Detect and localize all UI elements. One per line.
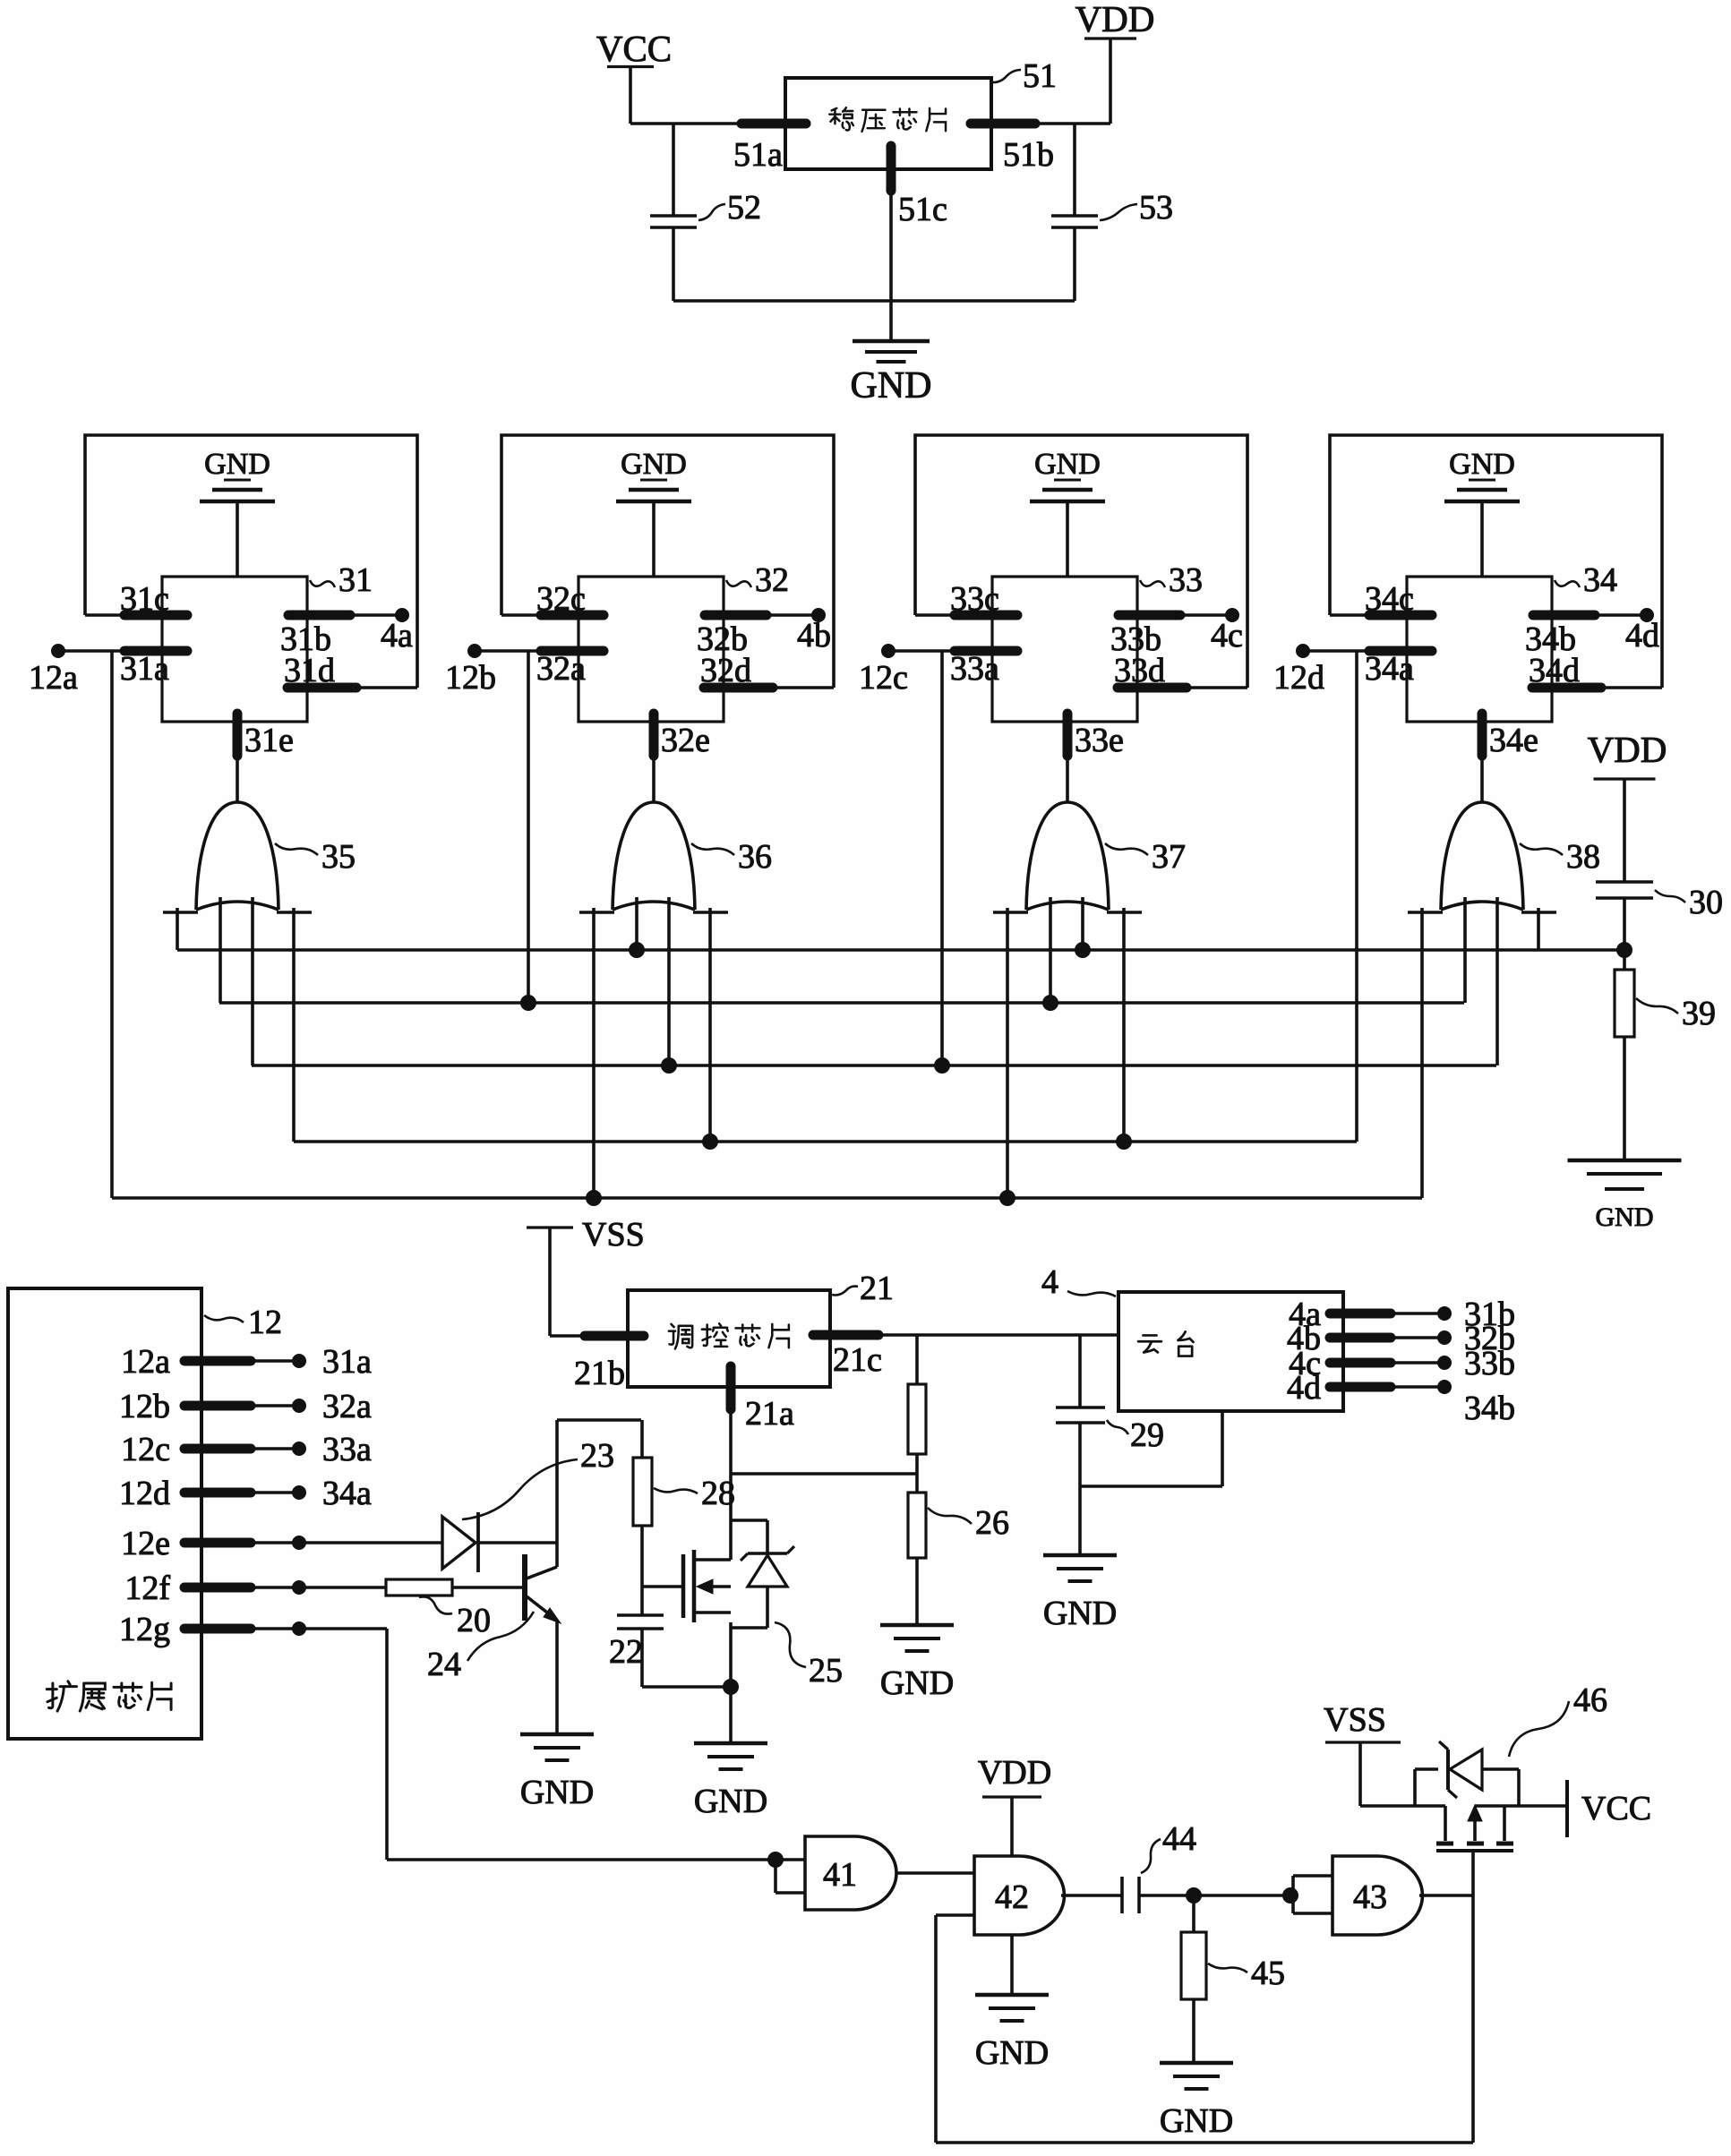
svg-text:GND: GND	[975, 2034, 1049, 2072]
pin 33e	[1066, 722, 1069, 802]
pin 12b of chip 12	[184, 1401, 251, 1411]
svg-text:33e: 33e	[1075, 722, 1124, 759]
svg-text:35: 35	[321, 838, 356, 876]
expansion chip 12 box	[8, 1288, 201, 1739]
chip 31 inner box	[162, 577, 307, 722]
svg-text:33a: 33a	[950, 650, 999, 688]
svg-text:12d: 12d	[119, 1475, 170, 1512]
node gate43 input tie	[1283, 1888, 1298, 1904]
label 23 with leader	[462, 1459, 578, 1519]
svg-text:31a: 31a	[120, 650, 169, 688]
svg-text:41: 41	[823, 1856, 857, 1894]
svg-text:21c: 21c	[833, 1341, 882, 1379]
zener diode of Q25 net	[731, 1519, 767, 1522]
wire gate42 to ground	[1010, 1935, 1014, 1995]
pin 31b with output node 4a	[288, 611, 350, 620]
label 44 with leader	[1141, 1839, 1161, 1873]
wire 12g to AND gate chain	[251, 1627, 387, 1630]
wire gate42 output to C44	[1061, 1894, 1122, 1897]
svg-text:GND: GND	[1043, 1595, 1117, 1632]
svg-text:GND: GND	[880, 1664, 954, 1702]
OR gate 36	[613, 802, 695, 910]
wire gimbal bottom pin to C29 net	[1221, 1411, 1224, 1486]
svg-text:34e: 34e	[1489, 722, 1538, 759]
svg-text:52: 52	[727, 189, 761, 227]
svg-text:GND: GND	[694, 1783, 767, 1820]
pin 4a to node 31b	[1330, 1309, 1391, 1319]
svg-text:GND: GND	[851, 365, 932, 406]
label 21 with leader	[832, 1287, 858, 1296]
svg-text:4d: 4d	[1625, 617, 1659, 654]
svg-text:4b: 4b	[797, 617, 831, 654]
svg-text:23: 23	[580, 1437, 614, 1475]
label 38 with leader	[1520, 843, 1563, 855]
pin 4c to node 33b	[1330, 1358, 1391, 1368]
wire 12a to node 31a	[251, 1359, 299, 1363]
label 51 with leader	[993, 70, 1021, 82]
resistor R27 upper of divider	[915, 1335, 919, 1384]
svg-text:VSS: VSS	[582, 1216, 645, 1253]
label 26 with leader	[928, 1508, 972, 1524]
svg-text:43: 43	[1353, 1878, 1387, 1916]
svg-text:33c: 33c	[950, 580, 999, 618]
ground GND under C29	[1043, 1553, 1117, 1558]
capacitor C29	[1078, 1335, 1082, 1407]
svg-text:GND: GND	[1160, 2102, 1233, 2140]
bus line 2	[219, 1001, 1464, 1005]
svg-text:53: 53	[1139, 189, 1173, 227]
svg-text:30: 30	[1689, 884, 1723, 921]
wire gate 36 input drop to bus 4	[708, 908, 712, 1142]
svg-text:21b: 21b	[574, 1355, 625, 1392]
svg-text:29: 29	[1130, 1416, 1164, 1454]
block 33 outer enclosure box	[915, 435, 1247, 688]
svg-text:VDD: VDD	[978, 1754, 1051, 1792]
svg-text:GND: GND	[1449, 448, 1515, 481]
svg-text:4a: 4a	[381, 617, 413, 654]
capacitor C30	[1596, 880, 1653, 884]
svg-text:GND: GND	[204, 448, 270, 481]
svg-text:32: 32	[755, 561, 789, 599]
wire gate 35 input drop to bus 1	[176, 908, 179, 950]
bus line 1	[177, 948, 1624, 952]
pin 4d to node 34b	[1330, 1382, 1391, 1392]
label 36 with leader	[691, 843, 734, 855]
chip 32 inner box	[578, 577, 724, 722]
label 45 with leader	[1208, 1963, 1247, 1972]
AND gate 42	[974, 1856, 1064, 1935]
svg-text:31: 31	[338, 561, 373, 599]
capacitor C22	[617, 1613, 664, 1617]
wire feedback riser to gate42 lower input	[934, 1915, 938, 2143]
power rail VCC of Q46	[1565, 1780, 1569, 1837]
resistor R39	[1615, 970, 1634, 1037]
node bus1-C30-R39	[1617, 943, 1632, 958]
block 32 outer enclosure box	[501, 435, 834, 688]
wire gate 37 input drop to bus 4	[1122, 908, 1126, 1142]
wire gate41 output to gate42	[896, 1871, 974, 1875]
wire source to ground	[729, 1622, 733, 1743]
mosfet Q46	[1436, 1849, 1513, 1852]
wire node up to resistor R28 top	[555, 1420, 559, 1543]
bus line 3	[252, 1064, 1496, 1067]
svg-text:33d: 33d	[1114, 652, 1165, 689]
label 34 with leader	[1555, 580, 1580, 587]
wire pin 51b to VDD	[1035, 122, 1110, 125]
label 53 with leader	[1100, 204, 1137, 220]
svg-text:32c: 32c	[536, 580, 586, 618]
label 32 with leader	[726, 580, 751, 587]
svg-text:VSS: VSS	[1324, 1701, 1386, 1739]
svg-text:VDD: VDD	[1075, 0, 1155, 39]
svg-text:12: 12	[248, 1304, 282, 1341]
wire gate 37 input drop to bus 2	[1049, 897, 1052, 1003]
wire gate 36 input drop to bus 5	[592, 908, 596, 1198]
label 28 with leader	[654, 1488, 698, 1493]
AND gate 43	[1333, 1856, 1422, 1935]
label 24 with leader	[467, 1612, 534, 1661]
label 52 with leader	[698, 204, 725, 220]
resistor R45	[1192, 1895, 1195, 1932]
svg-text:32e: 32e	[661, 722, 710, 759]
svg-text:32d: 32d	[700, 652, 751, 689]
svg-text:34a: 34a	[1365, 650, 1414, 688]
node Q25 source	[724, 1680, 739, 1695]
svg-text:12b: 12b	[119, 1388, 170, 1425]
ground GND under gate42	[975, 1993, 1049, 1998]
pin 34c	[1330, 613, 1407, 617]
wire gate 38 input drop to bus 3	[1495, 897, 1499, 1065]
wire gate43 output to mosfet Q46 gate	[1419, 1894, 1473, 1897]
svg-text:12g: 12g	[119, 1611, 170, 1648]
pin 32b with output node 4b	[705, 611, 767, 620]
node gate41 input tie	[768, 1852, 784, 1868]
wire gate 38 input drop to bus 1	[1537, 908, 1540, 950]
svg-text:33a: 33a	[322, 1431, 372, 1468]
pin 12g of chip 12	[184, 1624, 251, 1634]
svg-text:GND: GND	[621, 448, 687, 481]
ground GND under R45	[1160, 2061, 1233, 2066]
wire gate 38 input drop to bus 5	[1420, 908, 1424, 1198]
svg-text:4: 4	[1041, 1263, 1058, 1301]
svg-text:24: 24	[427, 1646, 461, 1683]
ground GND of regulator	[853, 339, 930, 344]
label 30 with leader	[1655, 890, 1685, 903]
pin 32e	[652, 722, 656, 802]
resistor R20	[386, 1579, 452, 1596]
svg-text:21a: 21a	[745, 1395, 794, 1433]
ground GND under R26	[880, 1623, 954, 1628]
wire 12b to node 32a	[251, 1404, 299, 1407]
pin 34e	[1480, 722, 1484, 802]
svg-text:31e: 31e	[244, 722, 294, 759]
wire gate 37 input drop to bus 5	[1006, 908, 1009, 1198]
pin 12c of chip 12	[184, 1444, 251, 1454]
svg-text:22: 22	[609, 1633, 643, 1671]
wire 12f to resistor R20	[251, 1586, 386, 1589]
wire 12a drop to bus 5	[110, 651, 114, 1198]
chip 34 inner box	[1407, 577, 1552, 722]
label 稳压芯片	[829, 107, 853, 130]
svg-text:12a: 12a	[121, 1343, 170, 1381]
label 39 with leader	[1636, 998, 1678, 1014]
pin 51b	[971, 119, 1035, 129]
pin 21a	[726, 1366, 736, 1409]
svg-text:21: 21	[860, 1270, 894, 1307]
svg-text:51: 51	[1023, 57, 1057, 95]
svg-text:45: 45	[1251, 1955, 1285, 1992]
wire 12d to node 34a	[251, 1491, 299, 1494]
wire gate 36 input drop to bus 1	[635, 897, 638, 950]
pin 12d of chip 12	[184, 1488, 251, 1498]
wire 21c to gimbal 4	[878, 1333, 1118, 1337]
wire gate 35 input drop to bus 4	[292, 908, 296, 1142]
label 20 with leader	[419, 1596, 452, 1613]
svg-text:VDD: VDD	[1588, 729, 1667, 770]
regulator chip U51 box	[785, 78, 991, 169]
svg-text:34d: 34d	[1529, 652, 1580, 689]
pin 51a	[741, 119, 806, 129]
pin 32c	[501, 613, 578, 617]
svg-text:31a: 31a	[322, 1343, 372, 1381]
svg-text:38: 38	[1566, 838, 1600, 876]
wire 12g riser to AND gate 41	[387, 1858, 805, 1861]
capacitor C44	[1120, 1877, 1124, 1913]
pin 31c	[85, 613, 162, 617]
pin 51c	[887, 146, 896, 191]
transistor Q24 npn	[522, 1554, 527, 1621]
pin 34d	[1532, 683, 1601, 693]
wire gate 37 input drop to bus 1	[1081, 897, 1084, 950]
svg-text:12b: 12b	[445, 659, 496, 697]
pin 32a with input node 12b	[475, 649, 578, 653]
label 31 with leader	[310, 580, 335, 587]
svg-text:25: 25	[809, 1652, 843, 1690]
wire R20 to transistor base	[452, 1586, 525, 1589]
svg-text:12e: 12e	[121, 1525, 170, 1562]
svg-text:20: 20	[457, 1602, 491, 1639]
capacitor C53	[1073, 124, 1076, 216]
wire Q46 gate node and feedback loop	[1471, 1852, 1475, 2143]
svg-text:12f: 12f	[124, 1570, 170, 1607]
wire 12c drop to bus 3	[940, 651, 944, 1065]
pin 12a of chip 12	[184, 1356, 251, 1366]
label 25 with leader	[775, 1622, 806, 1667]
svg-text:34: 34	[1583, 561, 1617, 599]
diode D23	[442, 1517, 476, 1569]
label 33 with leader	[1140, 580, 1165, 587]
resistor R28	[633, 1458, 652, 1526]
ground GND under Q24	[520, 1732, 594, 1737]
OR gate 35	[196, 802, 279, 910]
wire emitter to ground	[555, 1620, 559, 1734]
chip 33 inner box	[992, 577, 1137, 722]
pin 31e	[236, 722, 239, 802]
svg-text:28: 28	[701, 1475, 735, 1512]
svg-text:31c: 31c	[120, 580, 169, 618]
svg-text:33b: 33b	[1464, 1345, 1515, 1382]
svg-text:GND: GND	[1596, 1202, 1654, 1232]
svg-text:44: 44	[1162, 1820, 1196, 1858]
wire 21a node down	[729, 1409, 733, 1560]
pin 31a with input node 12a	[58, 649, 162, 653]
pin 21b	[585, 1331, 644, 1341]
OR gate 37	[1026, 802, 1109, 910]
pin 33c	[915, 613, 992, 617]
svg-text:42: 42	[995, 1878, 1029, 1916]
pin 21c	[813, 1330, 878, 1340]
pin 33b with output node 4c	[1118, 611, 1180, 620]
ground GND right	[1568, 1159, 1682, 1163]
pin 33a with input node 12c	[888, 649, 992, 653]
wire gate 35 input drop to bus 2	[219, 897, 222, 1003]
pin 34b with output node 4d	[1533, 611, 1595, 620]
svg-text:34a: 34a	[322, 1475, 372, 1512]
pin 31d	[287, 683, 356, 693]
gimbal block 4 box	[1118, 1292, 1343, 1411]
svg-text:VCC: VCC	[1581, 1790, 1651, 1827]
svg-text:37: 37	[1152, 838, 1186, 876]
wire VSS to pin 21b	[550, 1334, 585, 1338]
svg-text:46: 46	[1573, 1681, 1607, 1719]
wire 12e to diode D23	[251, 1541, 442, 1544]
svg-text:33: 33	[1169, 561, 1203, 599]
svg-text:51b: 51b	[1003, 136, 1054, 174]
wire 21a node to resistor chain	[731, 1472, 917, 1476]
svg-text:GND: GND	[520, 1774, 594, 1811]
bus line 4	[294, 1140, 1357, 1143]
wire D23 cathode to node	[477, 1541, 557, 1544]
wire gate 35 input drop to bus 3	[251, 897, 254, 1065]
svg-text:12a: 12a	[29, 659, 78, 697]
resistor R26 lower of divider	[908, 1493, 926, 1558]
wire 51c to ground	[889, 191, 893, 341]
svg-text:26: 26	[975, 1504, 1009, 1542]
pin 12e of chip 12	[184, 1538, 251, 1548]
svg-text:51a: 51a	[733, 136, 783, 174]
AND gate 41	[805, 1836, 896, 1910]
label 云台	[1138, 1335, 1161, 1352]
svg-text:12d: 12d	[1273, 659, 1324, 697]
label 扩展芯片	[47, 1681, 76, 1711]
svg-text:36: 36	[738, 838, 772, 876]
label 调控芯片	[669, 1324, 692, 1349]
svg-text:31d: 31d	[284, 652, 335, 689]
label 46 with leader	[1509, 1701, 1569, 1757]
node C44-R45	[1187, 1888, 1202, 1904]
ground GND under Q25	[694, 1741, 767, 1746]
capacitor C52	[672, 124, 675, 216]
pin 34a with input node 12d	[1303, 649, 1407, 653]
wire R28 to C22 and gate of Q25	[640, 1526, 644, 1615]
svg-text:12c: 12c	[121, 1431, 170, 1468]
wire capacitor bottoms	[673, 299, 1075, 303]
wire 12d drop to bus 4	[1355, 651, 1358, 1142]
bus line 5	[112, 1196, 1422, 1200]
block 31 outer enclosure box	[85, 435, 417, 688]
pin 33d	[1118, 683, 1187, 693]
svg-text:32a: 32a	[536, 650, 586, 688]
svg-text:32a: 32a	[322, 1388, 372, 1425]
svg-text:34c: 34c	[1365, 580, 1414, 618]
label 35 with leader	[275, 843, 318, 855]
svg-text:51c: 51c	[898, 191, 947, 228]
label 29 with leader	[1107, 1420, 1128, 1434]
svg-text:34b: 34b	[1464, 1390, 1515, 1427]
svg-text:GND: GND	[1034, 448, 1101, 481]
pin 32d	[704, 683, 773, 693]
OR gate 38	[1441, 802, 1523, 910]
svg-text:39: 39	[1682, 995, 1716, 1032]
control chip U21 box	[628, 1290, 830, 1387]
wire C44 to gate43	[1139, 1894, 1293, 1897]
svg-text:4d: 4d	[1287, 1369, 1321, 1407]
mosfet Q25	[681, 1554, 686, 1618]
label 12 with leader	[204, 1315, 244, 1322]
svg-text:VCC: VCC	[596, 28, 672, 69]
wire gate 38 input drop to bus 2	[1463, 897, 1467, 1003]
zener diode across Q46	[1413, 1769, 1417, 1806]
block 34 outer enclosure box	[1330, 435, 1662, 688]
label 37 with leader	[1105, 843, 1148, 855]
wire gate 36 input drop to bus 3	[667, 897, 671, 1065]
wire 12b drop to bus 2	[527, 651, 530, 1003]
svg-text:4c: 4c	[1211, 617, 1243, 654]
wire VCC to pin 51a	[630, 122, 741, 125]
pin 12f of chip 12	[184, 1583, 251, 1593]
wire 12c to node 33a	[251, 1447, 299, 1450]
svg-text:12c: 12c	[859, 659, 908, 697]
pin 4b to node 32b	[1330, 1333, 1391, 1343]
